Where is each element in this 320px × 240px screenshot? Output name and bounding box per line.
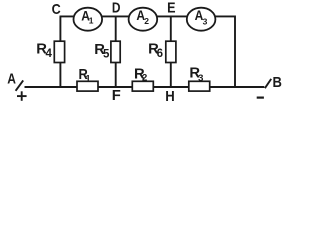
svg-text:A: A <box>7 72 16 88</box>
svg-text:2: 2 <box>144 16 149 26</box>
svg-text:2: 2 <box>142 73 147 84</box>
svg-text:E: E <box>167 0 176 16</box>
svg-text:F: F <box>112 88 121 104</box>
svg-text:D: D <box>112 0 121 16</box>
svg-text:H: H <box>165 89 175 105</box>
svg-text:3: 3 <box>198 73 203 84</box>
svg-text:6: 6 <box>157 48 163 60</box>
svg-text:3: 3 <box>203 16 208 26</box>
svg-text:5: 5 <box>103 49 110 61</box>
svg-text:1: 1 <box>89 16 94 26</box>
svg-text:B: B <box>273 75 283 91</box>
svg-text:C: C <box>52 2 61 18</box>
svg-text:1: 1 <box>85 74 91 85</box>
svg-text:4: 4 <box>46 48 53 60</box>
